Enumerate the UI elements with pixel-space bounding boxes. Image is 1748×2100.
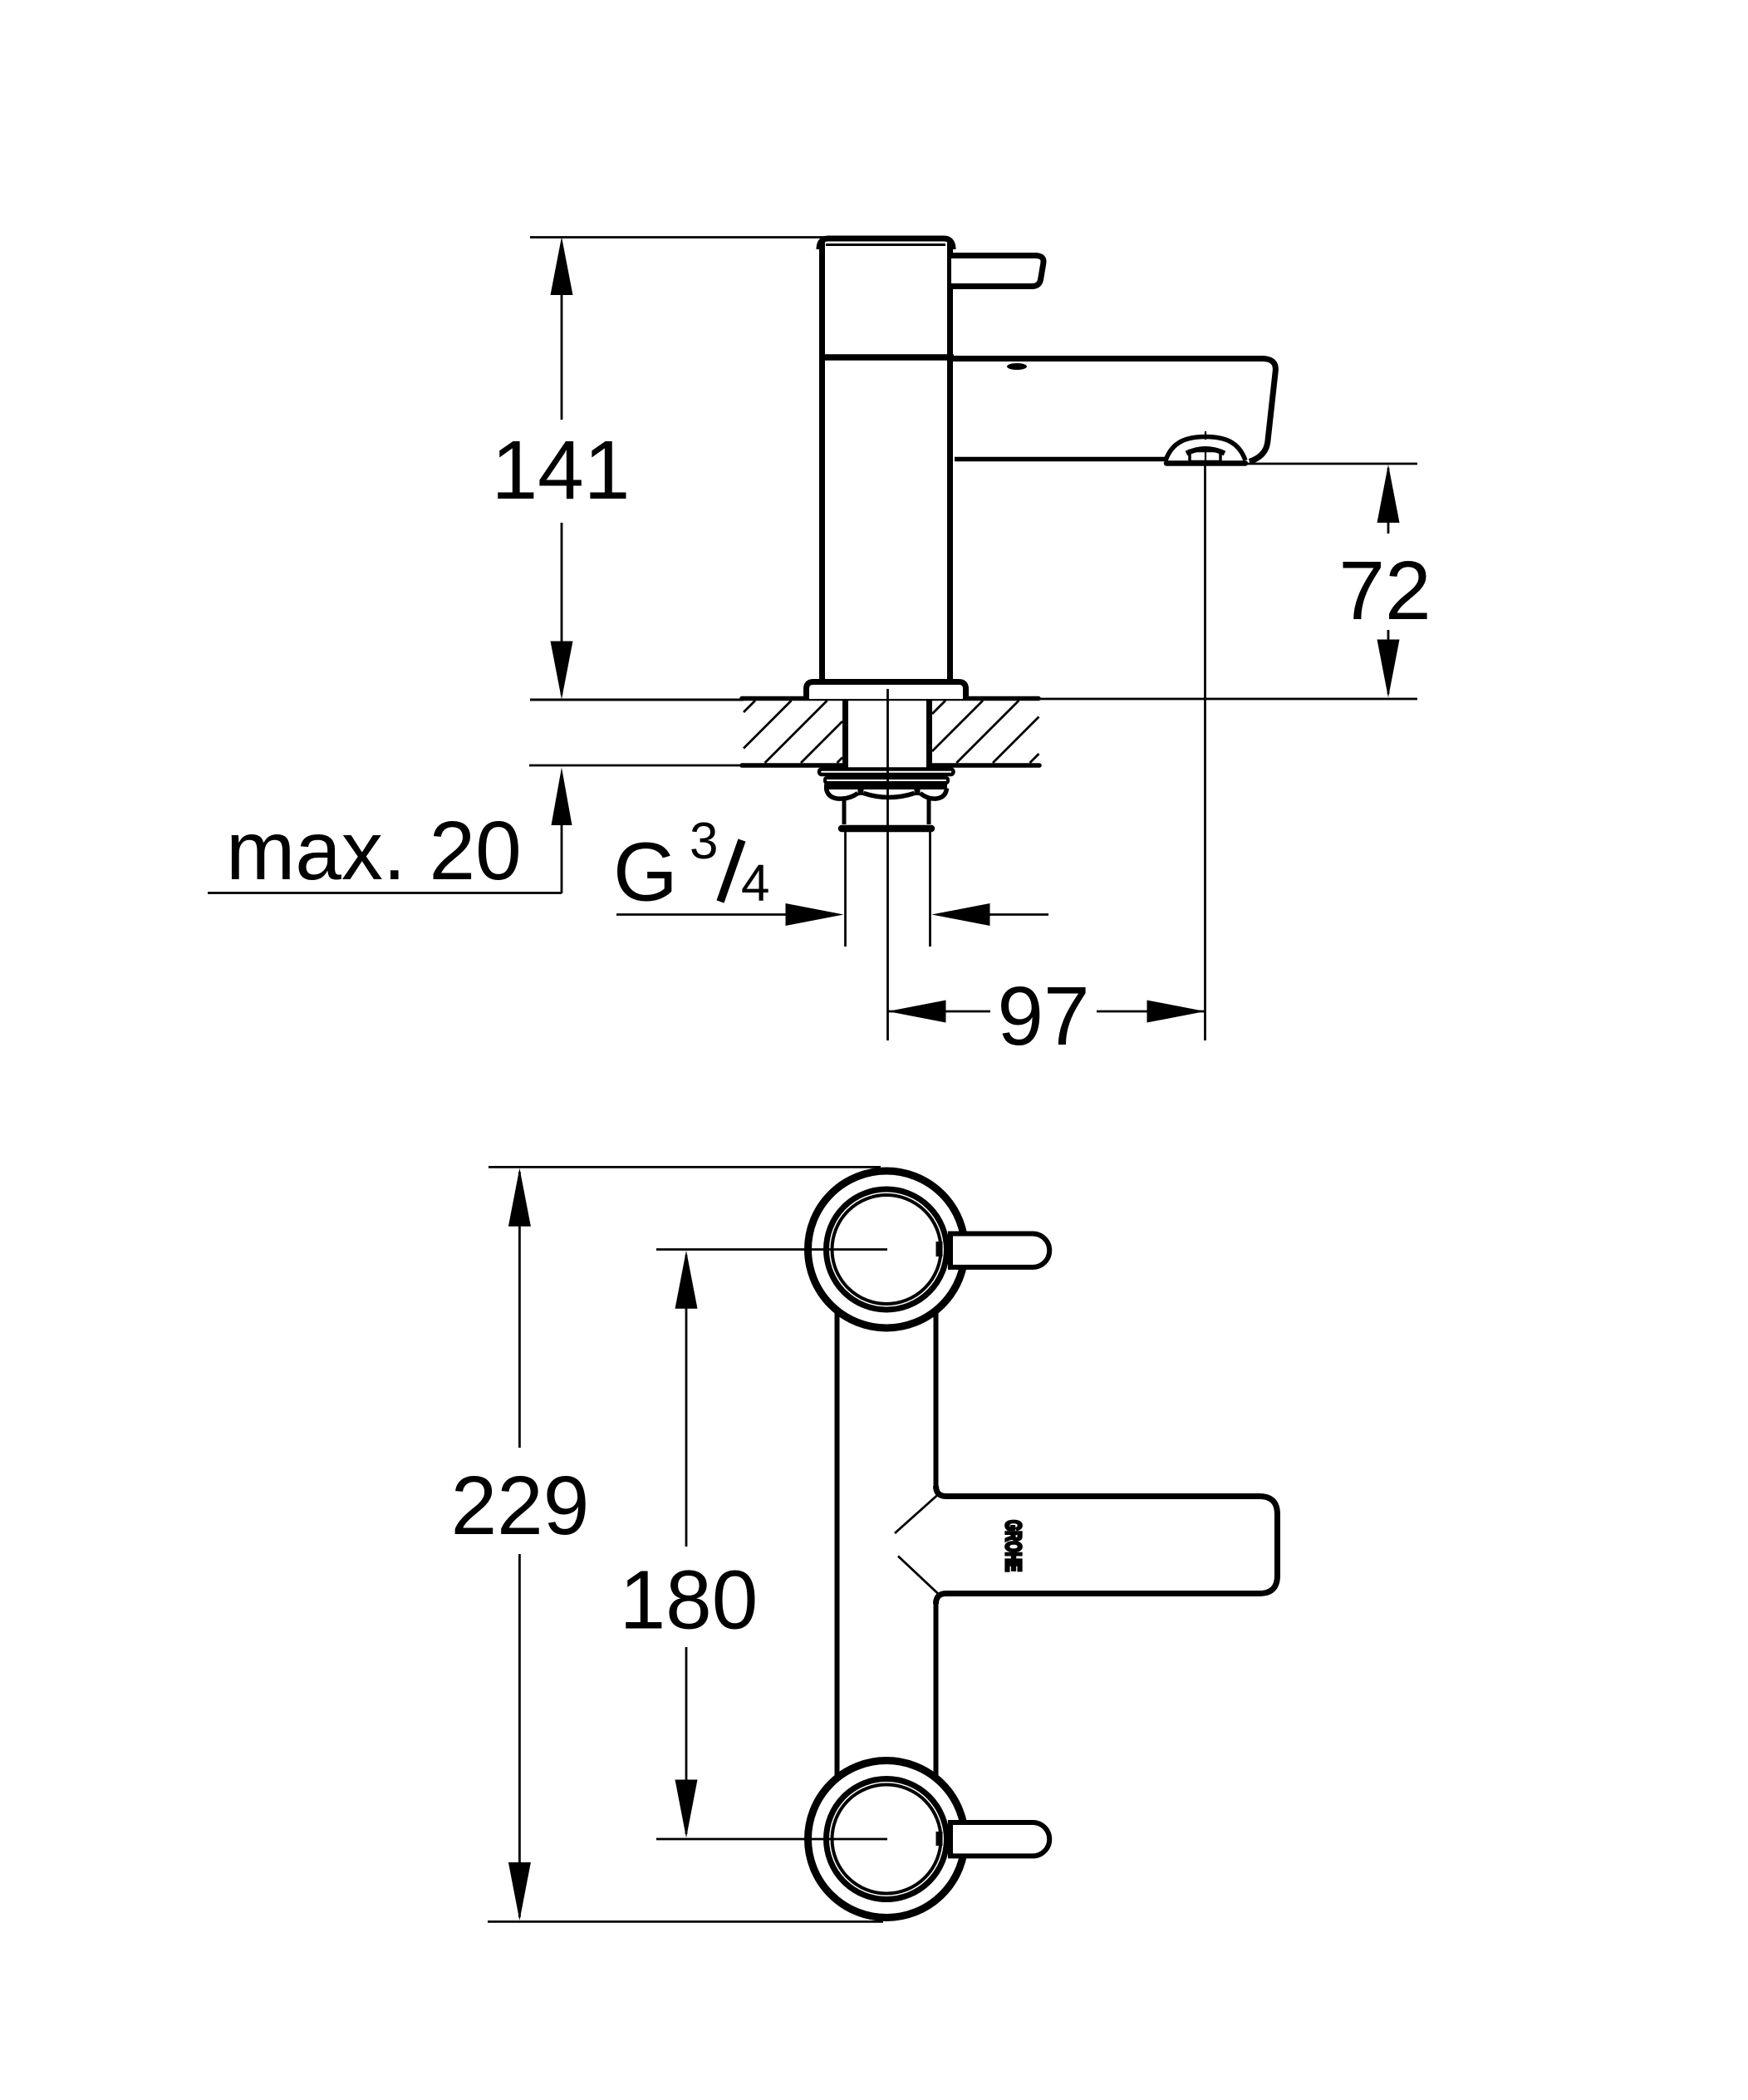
dimension 72 — [1338, 465, 1431, 698]
svg-text:4: 4 — [741, 855, 769, 912]
plan spout — [936, 1486, 1278, 1604]
washer — [819, 770, 954, 775]
spout top logo dot — [1007, 363, 1027, 370]
faucet body — [819, 239, 953, 681]
svg-text:GROHE: GROHE — [1001, 1520, 1025, 1571]
centerline of spout outlet — [1204, 465, 1206, 1040]
svg-text:180: 180 — [620, 1554, 759, 1647]
svg-text:141: 141 — [492, 424, 631, 517]
thread label G 3/4 — [613, 813, 1048, 926]
svg-text:G: G — [613, 826, 678, 919]
shank collar — [842, 797, 847, 824]
countertop bottom surface — [529, 765, 1039, 767]
through-hole shank walls — [842, 700, 848, 768]
centerline of faucet — [886, 689, 889, 1040]
spout junction V lines — [895, 1495, 940, 1596]
dimension 180 — [620, 1250, 887, 1840]
countertop top surface — [530, 699, 1417, 701]
wire: 141 top extension line — [530, 236, 825, 239]
wire: 72 top extension line — [1244, 463, 1417, 465]
gasket washer — [825, 778, 948, 783]
base flange — [807, 682, 966, 700]
valve body top (plan) — [808, 1171, 965, 1328]
svg-text:3: 3 — [690, 813, 718, 870]
handle bottom (plan) — [950, 1822, 1049, 1856]
countertop hatching — [744, 701, 842, 763]
handle lever (side view) — [951, 256, 1043, 287]
svg-text:72: 72 — [1338, 544, 1431, 637]
connector bar between valve bodies — [837, 1271, 936, 1820]
joint line — [819, 354, 954, 361]
dimension 229 — [451, 1167, 883, 1921]
mounting nut stack — [819, 700, 954, 947]
dimension 141 — [492, 237, 631, 700]
svg-text:97: 97 — [997, 970, 1089, 1063]
handle top (plan) — [950, 1234, 1049, 1267]
threaded shank — [844, 832, 847, 947]
GROHE logo on plan spout — [1001, 1520, 1025, 1571]
dimension 97 — [888, 970, 1205, 1063]
hex nut — [824, 784, 947, 789]
valve body bottom (plan) — [808, 1761, 965, 1918]
svg-text:229: 229 — [451, 1459, 590, 1552]
dimension max. 20 — [208, 768, 572, 898]
aerator — [1166, 431, 1245, 464]
svg-text:max. 20: max. 20 — [226, 804, 522, 898]
spout — [953, 359, 1275, 462]
